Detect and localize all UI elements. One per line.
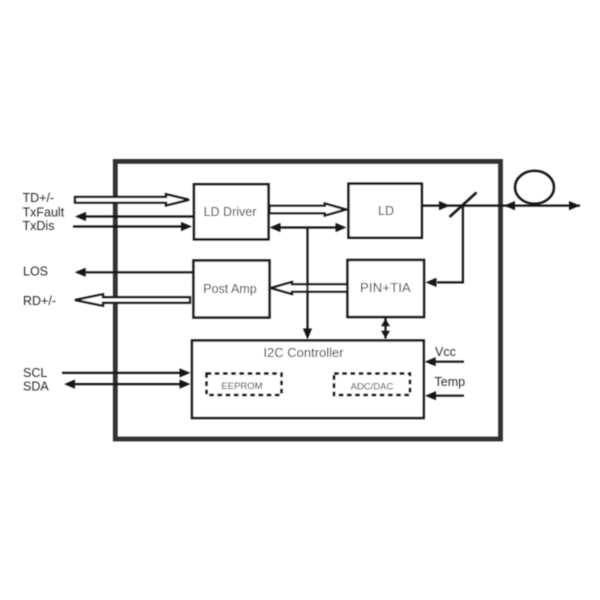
svg-text:TD+/-: TD+/- [23, 191, 55, 205]
svg-text:Temp: Temp [435, 375, 466, 389]
svg-text:ADC/DAC: ADC/DAC [351, 382, 394, 393]
svg-text:TxDis: TxDis [23, 219, 55, 233]
svg-text:I2C Controller: I2C Controller [263, 345, 344, 360]
svg-text:TxFault: TxFault [23, 206, 65, 220]
svg-text:SCL: SCL [23, 366, 47, 380]
svg-text:EEPROM: EEPROM [221, 381, 262, 392]
svg-text:PIN+TIA: PIN+TIA [360, 280, 411, 295]
svg-text:LD: LD [378, 204, 394, 218]
svg-text:LD Driver: LD Driver [204, 205, 257, 219]
svg-text:RD+/-: RD+/- [23, 294, 56, 308]
svg-text:SDA: SDA [23, 380, 49, 394]
svg-text:Vcc: Vcc [435, 345, 456, 359]
svg-text:Post Amp: Post Amp [203, 282, 257, 296]
svg-text:LOS: LOS [23, 265, 48, 279]
